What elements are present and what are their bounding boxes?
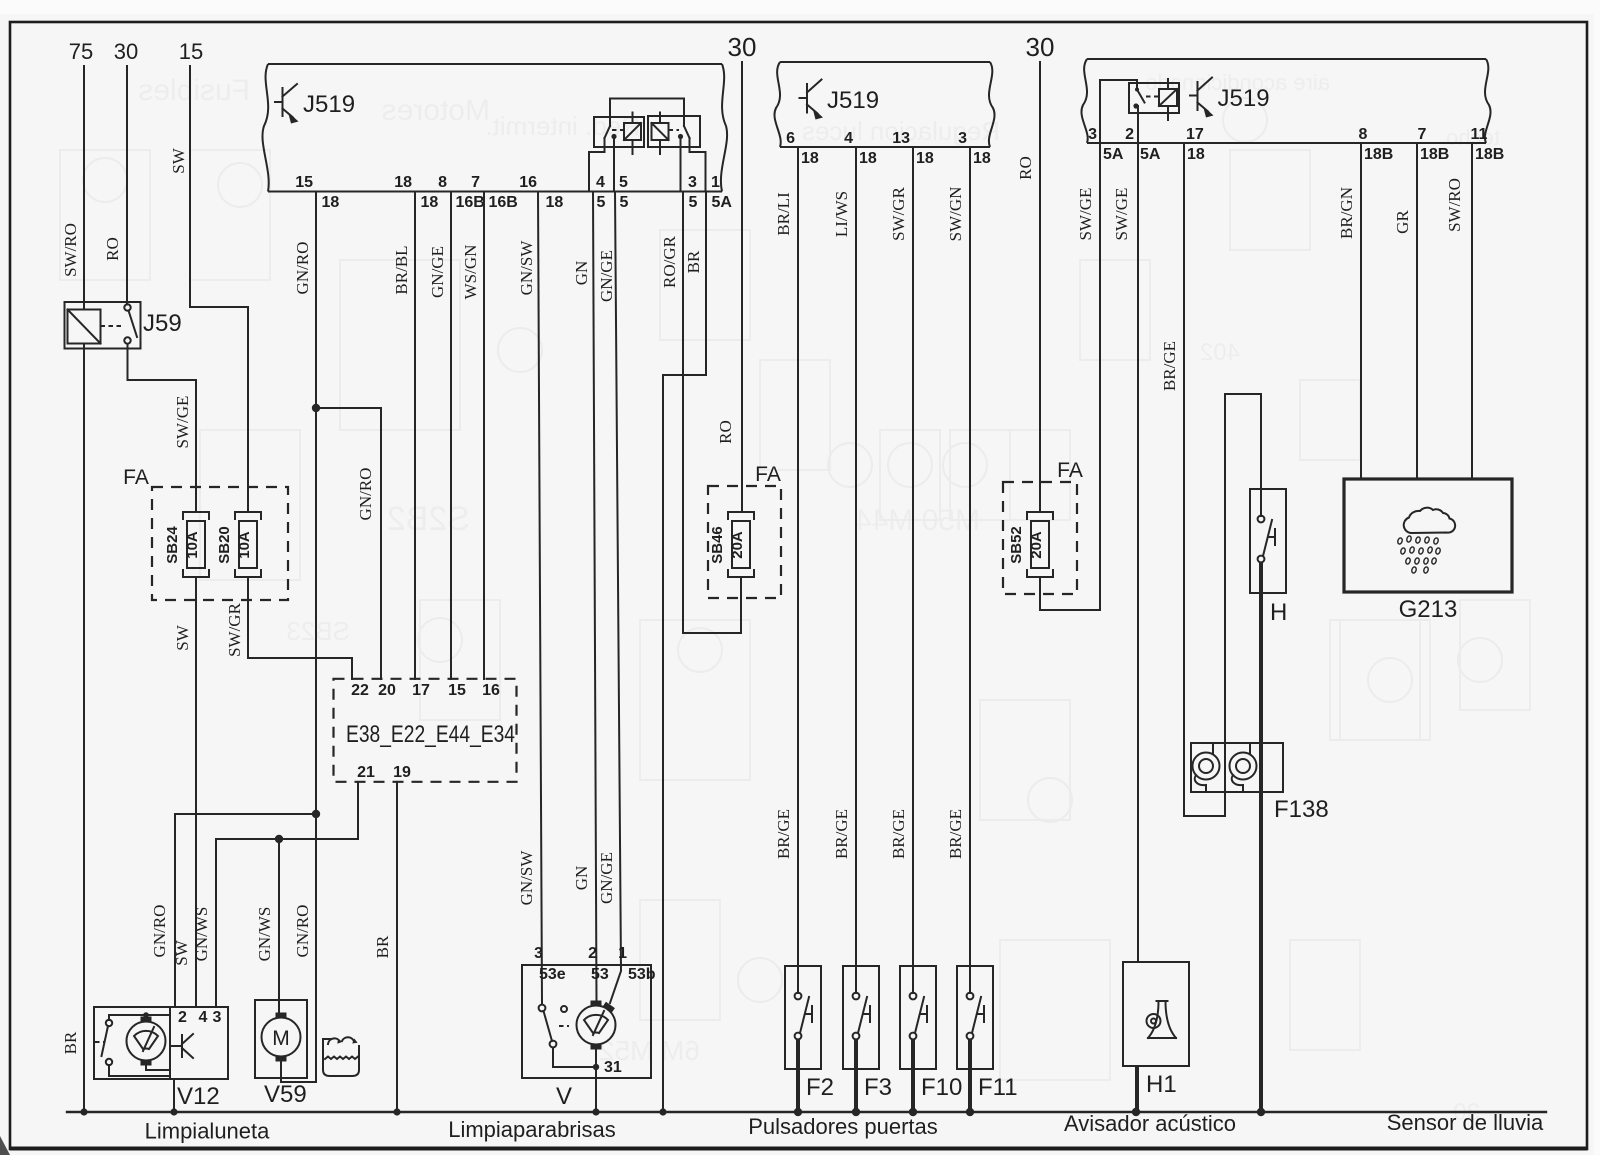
svg-text:8: 8 [438, 174, 447, 191]
wire BR pin 1 to ground [663, 192, 706, 1113]
wire 31 to ground [553, 1048, 596, 1068]
svg-text:7: 7 [1418, 126, 1427, 143]
svg-text:402: 402 [1200, 339, 1240, 366]
svg-text:GN/WS: GN/WS [192, 907, 211, 962]
relay J59 [65, 302, 141, 349]
svg-text:11: 11 [1471, 126, 1488, 143]
svg-text:2: 2 [1125, 126, 1134, 143]
wire GN/GE pin 5 to wiper motor 53b [610, 192, 621, 1004]
svg-text:30: 30 [728, 32, 757, 62]
wire GN/WS E38 pin 21 to V59 [216, 782, 358, 839]
svg-text:BR/BL: BR/BL [392, 245, 411, 294]
svg-text:16: 16 [519, 174, 537, 191]
svg-text:H1: H1 [1146, 1071, 1177, 1098]
svg-text:F3: F3 [864, 1074, 892, 1101]
relay (J519 right, intermittent) [648, 116, 700, 147]
wire relay pin3 [680, 137, 682, 192]
wire 30 RO to fuse SB46 [741, 62, 743, 512]
control unit J519 busbar (left segment) [268, 63, 722, 65]
svg-text:RO/GR: RO/GR [660, 235, 679, 288]
wire horn switch feed [1184, 394, 1261, 816]
wire 15 SW to fuse SB20 [190, 66, 248, 512]
svg-text:SB24: SB24 [164, 526, 181, 564]
svg-text:GN/SW: GN/SW [517, 240, 536, 296]
svg-text:3: 3 [958, 130, 967, 147]
svg-text:FA: FA [1057, 459, 1083, 482]
wire GN/RO from pin 15 [315, 192, 317, 409]
ground node [659, 1108, 666, 1115]
svg-text:10A: 10A [236, 531, 253, 559]
svg-text:16: 16 [482, 682, 500, 699]
wire V59 lower brush [280, 1062, 282, 1082]
svg-text:BR/GE: BR/GE [1160, 341, 1179, 391]
wire WS/GN pin 7 to E38 pin 16 [483, 192, 485, 680]
svg-text:V12: V12 [177, 1083, 220, 1110]
wire H1 to ground (thick) [1135, 1066, 1139, 1110]
svg-text:F2: F2 [806, 1074, 834, 1101]
svg-text:GN: GN [572, 866, 591, 891]
svg-text:3: 3 [1088, 126, 1097, 143]
rain sensor G213 [1344, 479, 1512, 592]
ground node [966, 1108, 974, 1116]
door switch F2 [785, 966, 821, 1069]
ground bus [67, 1111, 1546, 1113]
wire RO/GR pin 3 to fuse SB46 [683, 192, 741, 634]
wire SW/RO pin 11 to G213 [1471, 143, 1473, 479]
svg-text:M50 M44: M50 M44 [855, 504, 980, 537]
svg-text:BR: BR [61, 1031, 80, 1054]
fuse SB24 10A [183, 512, 209, 519]
fusebox FA (left) [152, 487, 288, 600]
svg-text:1: 1 [618, 945, 627, 962]
svg-text:18B: 18B [1475, 146, 1504, 163]
svg-text:5: 5 [597, 194, 606, 211]
svg-text:Limpialuneta: Limpialuneta [145, 1119, 271, 1144]
wire LI/WS to door switch [855, 147, 857, 966]
ground node [1257, 1108, 1265, 1116]
svg-text:2: 2 [178, 1009, 187, 1026]
svg-text:RO: RO [1016, 156, 1035, 180]
svg-text:SB52: SB52 [1008, 526, 1025, 564]
svg-text:FA: FA [123, 466, 149, 489]
svg-text:Red. intermit.: Red. intermit. [485, 111, 640, 141]
svg-text:E38_E22_E44_E34: E38_E22_E44_E34 [346, 721, 515, 748]
wire relay pin5 [613, 137, 615, 192]
svg-text:SW: SW [169, 147, 188, 173]
node GN/RO to V12 [312, 810, 320, 818]
fusebox FA (SB52) [1003, 482, 1077, 594]
svg-text:18: 18 [859, 150, 877, 167]
wire GN/RO trunk down [315, 408, 317, 814]
svg-text:16B: 16B [456, 194, 485, 211]
relay (J519 horn) [1100, 80, 1137, 143]
svg-text:8: 8 [1359, 126, 1368, 143]
svg-text:S2B2: S2B2 [387, 500, 470, 538]
svg-text:30: 30 [1026, 32, 1055, 62]
svg-text:J519: J519 [827, 87, 879, 114]
svg-text:5: 5 [620, 194, 629, 211]
svg-text:15: 15 [448, 682, 466, 699]
wire horn switch to ground (thick) [1259, 562, 1263, 1110]
svg-text:5: 5 [689, 194, 698, 211]
svg-text:SB46: SB46 [709, 526, 726, 564]
wire SW/GR to door switch [912, 147, 914, 966]
wire 30 RO to fuse SB52 [1039, 62, 1041, 512]
wire BR E38 pin 19 to ground [396, 782, 398, 1112]
svg-text:SW/GE: SW/GE [1076, 188, 1095, 241]
svg-text:18: 18 [421, 194, 439, 211]
svg-text:18: 18 [916, 150, 934, 167]
switch unit E38_E22_E44_E34 [334, 679, 517, 782]
svg-text:SB23: SB23 [286, 616, 350, 646]
fuse SB46 20A [728, 512, 754, 519]
wire GN/WS to V12 pin 3 [215, 839, 217, 1007]
svg-text:SB20: SB20 [216, 526, 233, 564]
svg-text:3: 3 [534, 945, 543, 962]
ground node [909, 1108, 917, 1116]
svg-text:GN: GN [572, 261, 591, 286]
svg-text:GN/RO: GN/RO [293, 905, 312, 958]
svg-text:Fusibles: Fusibles [138, 74, 250, 107]
door switch F10 [900, 966, 936, 1069]
svg-text:GN/RO: GN/RO [293, 242, 312, 295]
fuse SB20 10A [235, 512, 261, 519]
wire BR/GE pin 17 to F138 [1183, 143, 1185, 816]
svg-text:53: 53 [591, 966, 609, 983]
svg-text:F138: F138 [1274, 796, 1329, 823]
svg-text:4: 4 [596, 174, 605, 191]
ground node [1132, 1108, 1140, 1116]
wire SW from SB24 to V12 pin 4 [195, 577, 197, 1007]
svg-text:53b: 53b [628, 966, 656, 983]
control unit J519 busbar (middle segment) [780, 61, 990, 63]
wire 30 RO to J59 [126, 66, 128, 305]
svg-text:5A: 5A [1103, 146, 1124, 163]
svg-text:SW/GR: SW/GR [889, 186, 908, 241]
svg-text:4: 4 [199, 1009, 208, 1026]
svg-text:21: 21 [357, 764, 375, 781]
svg-text:GN/RO: GN/RO [150, 905, 169, 958]
horn H1 [1123, 962, 1189, 1066]
svg-text:20A: 20A [729, 531, 746, 559]
svg-text:20A: 20A [1028, 531, 1045, 559]
svg-text:Sensor de lluvia: Sensor de lluvia [1387, 1110, 1544, 1135]
wire 75 SW/RO [83, 66, 85, 309]
wire GR pin 7 to G213 [1416, 143, 1418, 479]
svg-text:75: 75 [69, 39, 93, 64]
svg-text:18: 18 [1187, 146, 1205, 163]
svg-text:18: 18 [801, 150, 819, 167]
wire SW/GN to door switch [969, 147, 971, 966]
svg-text:1: 1 [711, 174, 720, 191]
ground node [852, 1108, 860, 1116]
svg-text:13: 13 [892, 130, 910, 147]
svg-text:17: 17 [412, 682, 430, 699]
svg-text:15: 15 [179, 39, 203, 64]
fusebox FA (SB46) [708, 486, 781, 598]
wire GN/GE pin 8 to E38 pin 15 [450, 192, 452, 680]
svg-text:LI/WS: LI/WS [832, 191, 851, 237]
relay (J519 left, wash/wipe) [594, 117, 644, 147]
svg-text:GN/SW: GN/SW [517, 850, 536, 906]
svg-text:18B: 18B [1364, 146, 1393, 163]
svg-text:SW/GE: SW/GE [1112, 188, 1131, 241]
svg-text:BR/GE: BR/GE [832, 809, 851, 859]
svg-text:SW/GR: SW/GR [225, 602, 244, 657]
wire BR/BL pin 18 to E38 pin 17 [414, 192, 416, 680]
fuse SB52 20A [1027, 512, 1053, 519]
svg-text:18: 18 [973, 150, 991, 167]
svg-text:Limpiaparabrisas: Limpiaparabrisas [448, 1117, 616, 1142]
svg-text:SW/GE: SW/GE [173, 396, 192, 449]
ground node [592, 1108, 599, 1115]
svg-text:SW/RO: SW/RO [61, 223, 80, 277]
ground node [393, 1108, 400, 1115]
svg-text:7: 7 [471, 174, 480, 191]
wire GN/SW pin 16 to wiper switch 53e [538, 192, 542, 1005]
svg-text:Avisador acústico: Avisador acústico [1064, 1111, 1236, 1136]
svg-text:18B: 18B [1420, 146, 1449, 163]
node GN/RO branch [312, 404, 320, 412]
wire SW/GR from SB20 to E38 pin 22 [248, 577, 352, 679]
windshield wiper motor V [522, 965, 651, 1078]
wire SW/GE from SB52 up to pin 3/5A [1040, 143, 1100, 610]
svg-text:19: 19 [393, 764, 411, 781]
wire SW/GE pin 2 to horn H1 [1137, 106, 1139, 962]
svg-text:Motores: Motores [382, 94, 490, 127]
svg-text:5A: 5A [1140, 146, 1161, 163]
svg-text:F10: F10 [921, 1074, 962, 1101]
svg-text:SW/RO: SW/RO [1445, 178, 1464, 232]
svg-text:17: 17 [1186, 126, 1204, 143]
svg-text:GN/WS: GN/WS [255, 907, 274, 962]
svg-text:BR/GE: BR/GE [946, 809, 965, 859]
svg-text:FA: FA [755, 463, 781, 486]
svg-text:J519: J519 [303, 91, 355, 118]
svg-text:GN/GE: GN/GE [597, 250, 616, 302]
svg-text:30: 30 [114, 39, 138, 64]
fanfare horns F138 [1191, 743, 1283, 792]
svg-text:BR/GE: BR/GE [889, 809, 908, 859]
svg-text:M: M [272, 1027, 290, 1050]
svg-text:V59: V59 [264, 1081, 307, 1108]
svg-text:15: 15 [295, 174, 313, 191]
svg-text:GN/GE: GN/GE [597, 852, 616, 904]
svg-text:3: 3 [688, 174, 697, 191]
svg-text:G213: G213 [1399, 596, 1458, 623]
svg-text:BR: BR [373, 935, 392, 958]
ground node [170, 1108, 177, 1115]
svg-text:20: 20 [378, 682, 396, 699]
J519 symbol (right) [1190, 95, 1198, 97]
svg-text:31: 31 [604, 1059, 622, 1076]
control unit J519 busbar (right segment) [1087, 58, 1486, 60]
door switch F11 [957, 966, 993, 1069]
svg-text:BR/LI: BR/LI [774, 192, 793, 236]
svg-text:5A: 5A [712, 194, 733, 211]
svg-text:BR/GE: BR/GE [774, 809, 793, 859]
wire relay pin1 [690, 138, 706, 192]
wire GN/RO to V59 lower brush [281, 814, 316, 1082]
svg-text:18: 18 [546, 194, 564, 211]
svg-text:RO: RO [103, 237, 122, 261]
ground node [80, 1108, 87, 1115]
washer pump V59 [255, 1000, 307, 1078]
wire BR/LI to door switch [797, 147, 799, 966]
svg-text:WS/GN: WS/GN [461, 245, 480, 300]
svg-text:53e: 53e [539, 966, 566, 983]
svg-text:SW: SW [173, 624, 192, 650]
svg-text:3: 3 [213, 1009, 222, 1026]
ground node [794, 1108, 802, 1116]
svg-text:F11: F11 [978, 1074, 1018, 1101]
washer reservoir icon [323, 1046, 359, 1076]
svg-text:Pulsadores puertas: Pulsadores puertas [748, 1114, 938, 1139]
svg-text:BR: BR [684, 250, 703, 273]
svg-text:4: 4 [844, 130, 853, 147]
svg-text:22: 22 [351, 682, 369, 699]
svg-text:V: V [556, 1083, 572, 1110]
node V59 branch [275, 835, 283, 843]
svg-text:6: 6 [786, 130, 795, 147]
svg-text:5: 5 [619, 174, 628, 191]
wire GN/RO to V12 pin 2 [175, 814, 316, 1007]
wire to V59 upper brush [278, 839, 280, 1012]
svg-text:BR/GN: BR/GN [1337, 187, 1356, 239]
svg-text:GR: GR [1393, 210, 1412, 234]
svg-text:2: 2 [588, 945, 597, 962]
horn switch H [1250, 489, 1286, 593]
svg-text:10A: 10A [184, 531, 201, 559]
svg-text:RO: RO [716, 420, 735, 444]
wire V12 to ground [173, 1079, 175, 1112]
svg-text:16B: 16B [489, 194, 518, 211]
wire GN/RO branch to E38 pin 20 [316, 408, 381, 679]
wire relay loop [610, 98, 684, 100]
wire BR from J59 coil to ground [83, 344, 85, 1113]
rear wiper motor V12 [94, 1007, 228, 1079]
wire BR/GN pin 8 to G213 [1360, 143, 1362, 479]
svg-text:GN/RO: GN/RO [356, 468, 375, 521]
svg-text:J519: J519 [1218, 85, 1270, 112]
svg-text:GN/GE: GN/GE [428, 246, 447, 298]
svg-text:J59: J59 [143, 310, 182, 337]
svg-text:18: 18 [322, 194, 340, 211]
svg-text:18: 18 [394, 174, 412, 191]
door switch F3 [843, 966, 879, 1069]
wire relay pin4 [589, 138, 605, 192]
svg-text:H: H [1270, 599, 1287, 626]
svg-text:SW/GN: SW/GN [946, 187, 965, 242]
wire GN pin 4 to wiper motor 53 [593, 192, 597, 1002]
wire SW/GE from J59 to fuse SB24 [128, 344, 197, 512]
